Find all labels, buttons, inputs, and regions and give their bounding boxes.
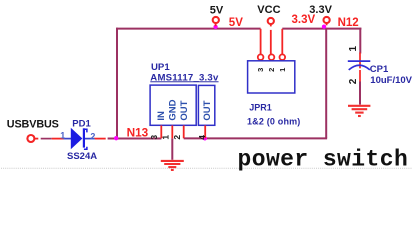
svg-text:IN: IN <box>156 111 167 121</box>
pin UP1 GND stub <box>171 125 173 138</box>
wire 5V rail top-left horizontal <box>116 28 261 30</box>
svg-text:3: 3 <box>149 135 159 140</box>
wire 3.3V rail top-right horizontal <box>282 28 361 30</box>
svg-text:5V: 5V <box>229 17 243 29</box>
node 3.3V junction dot <box>322 24 326 28</box>
svg-text:CP1: CP1 <box>370 64 389 75</box>
node N13 junction dot <box>114 136 118 140</box>
pin JPR1 pin1 wire <box>281 29 283 54</box>
power port 5V terminal circle <box>213 17 219 23</box>
svg-text:SS24A: SS24A <box>67 151 97 162</box>
svg-text:4: 4 <box>197 135 207 140</box>
svg-text:OUT: OUT <box>179 100 190 120</box>
svg-text:2: 2 <box>90 131 95 141</box>
svg-text:GND: GND <box>167 99 178 120</box>
ground symbol under regulator <box>161 161 184 170</box>
dotted page boundary line <box>1 167 412 169</box>
capacitor CP1 top plate <box>348 60 371 62</box>
svg-text:2: 2 <box>348 78 359 84</box>
pin JPR1 pin2 circle <box>269 54 275 60</box>
pin UP1 IN stub <box>160 125 162 138</box>
connector JPR1 box <box>248 61 295 93</box>
svg-text:power switch: power switch <box>238 147 409 172</box>
pin diode anode blue segment <box>64 138 72 140</box>
svg-text:1: 1 <box>278 68 287 72</box>
svg-text:USBVBUS: USBVBUS <box>7 118 59 130</box>
wire VCC down to JPR1 pin 2 <box>270 30 272 54</box>
op UP1 regulator left box <box>150 85 196 125</box>
capacitor CP1 bottom pin wire red part <box>359 70 361 82</box>
ground symbol under CP1 <box>348 106 370 116</box>
diode PD1 schottky bottom hook <box>84 147 87 150</box>
wire anode maroon segment <box>41 138 52 140</box>
svg-text:UP1: UP1 <box>151 62 170 73</box>
svg-text:OUT: OUT <box>202 100 213 120</box>
svg-text:1&2 (0 ohm): 1&2 (0 ohm) <box>247 116 301 126</box>
pin JPR1 pin3 circle <box>258 54 264 60</box>
svg-text:VCC: VCC <box>257 4 280 16</box>
pin JPR1 pin1 circle <box>280 54 286 60</box>
pin UP1 OUT stub <box>183 125 185 138</box>
svg-text:PD1: PD1 <box>72 119 91 130</box>
svg-text:1: 1 <box>60 131 65 141</box>
svg-text:N13: N13 <box>127 126 149 140</box>
node 5V junction dot <box>213 25 217 29</box>
wire 3.3V long vertical to regulator output <box>325 28 327 139</box>
svg-text:JPR1: JPR1 <box>249 102 272 112</box>
pin UP1 OUT tab stub <box>204 125 206 138</box>
svg-text:2: 2 <box>267 68 276 72</box>
wire left vertical 5V drop <box>116 28 118 139</box>
diode PD1 triangle <box>71 128 83 149</box>
port USBVBUS terminal circle <box>27 135 34 142</box>
node pin4 junction dot <box>203 136 207 140</box>
capacitor CP1 top pin wire <box>359 53 361 69</box>
op UP1 regulator right box <box>198 85 214 125</box>
svg-text:10uF/10V: 10uF/10V <box>370 75 412 86</box>
diode PD1 schottky cathode bar <box>83 128 85 147</box>
wire 3.3V terminal stub <box>326 23 328 25</box>
power port 3.3V terminal circle <box>324 17 330 23</box>
wire GND pin descent <box>171 138 173 160</box>
wire bottom left to regulator IN <box>108 138 162 140</box>
pin diode cathode blue segment <box>85 138 95 140</box>
svg-text:N12: N12 <box>338 17 359 29</box>
svg-text:1: 1 <box>348 46 359 52</box>
svg-text:AMS1117_3.3v: AMS1117_3.3v <box>150 72 219 83</box>
wire regulator OUT to 3.3V vertical <box>184 137 327 139</box>
wire N12 vertical to CP1 <box>359 28 361 54</box>
svg-text:1: 1 <box>161 135 171 140</box>
wire USBVBUS stub red <box>35 138 38 140</box>
diode PD1 schottky top hook <box>84 129 87 132</box>
svg-text:3.3V: 3.3V <box>292 14 316 26</box>
wire cathode red segment <box>94 138 106 140</box>
pin JPR1 pin3 wire <box>260 29 262 54</box>
wire 5V terminal stub <box>215 23 217 26</box>
svg-text:2: 2 <box>172 135 182 140</box>
capacitor CP1 curved plate <box>349 65 370 70</box>
svg-text:3: 3 <box>256 68 265 72</box>
power port VCC terminal circle <box>268 18 274 24</box>
svg-text:5V: 5V <box>210 4 224 16</box>
wire anode red segment <box>52 138 64 140</box>
capacitor CP1 bottom wire maroon part <box>359 82 361 105</box>
wire VCC terminal stub <box>270 24 272 26</box>
